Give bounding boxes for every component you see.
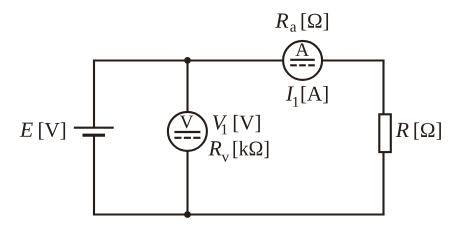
wire right vertical <box>382 61 384 215</box>
value label V_1[V]: [V] <box>234 115 260 132</box>
node junction bottom (middle branch to bottom wire) <box>184 211 191 218</box>
value label I_1[A]: [A] <box>302 86 328 103</box>
ammeter A1 body <box>283 41 322 80</box>
value label I_1[A]: subscript 1 <box>293 97 298 107</box>
value label V_1[V]: subscript 1 <box>222 124 227 134</box>
value label R[Ohm]: [Ohm] <box>414 122 440 139</box>
wire bottom <box>93 213 385 215</box>
node junction top (middle branch to top wire) <box>184 57 191 64</box>
battery E long plate <box>74 127 114 129</box>
value label R_a[Ohm]: R (italic) <box>275 14 288 28</box>
wire middle vertical <box>186 61 188 215</box>
value label I_1[A]: I (italic) <box>286 86 294 100</box>
wire left upper <box>93 59 95 127</box>
voltmeter V1 letter V <box>180 116 193 129</box>
ammeter A1 letter A <box>296 43 309 56</box>
battery E short plate <box>83 134 106 137</box>
value label V_1[V]: V (italic) <box>213 115 227 129</box>
value label R[Ohm]: R (italic) <box>396 123 409 137</box>
voltmeter V1 body <box>168 112 207 151</box>
value label E[V]: E (italic) <box>20 123 33 137</box>
resistor R body <box>379 114 391 152</box>
ammeter A1 DC symbol solid bar <box>290 59 315 61</box>
ammeter A1 DC symbol dashed bar <box>290 64 315 66</box>
value label E[V]: [V] <box>39 122 65 139</box>
value label R_v[kOhm]: subscript v <box>222 155 230 162</box>
value label R_v[kOhm]: R (italic) <box>208 141 221 155</box>
wire left lower <box>93 135 95 215</box>
voltmeter V1 DC symbol solid bar <box>174 131 200 133</box>
value label R_a[Ohm]: [Ohm] <box>302 13 328 30</box>
value label R_v[kOhm]: [kOhm] <box>233 141 268 158</box>
value label R_a[Ohm]: subscript a <box>290 25 296 32</box>
voltmeter V1 DC symbol dashed bar <box>174 137 200 139</box>
wire top <box>93 59 385 61</box>
